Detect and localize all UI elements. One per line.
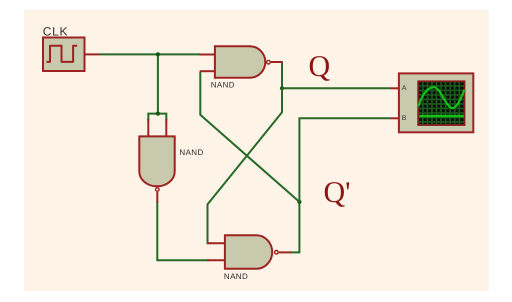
U2 input pin B: [165, 119, 167, 137]
scope trace channel B flat line: [419, 115, 464, 117]
U3 input pin A: [208, 242, 226, 244]
scope graticule: [419, 82, 464, 125]
junction node Q': [297, 200, 301, 204]
scope pin B: [390, 117, 400, 119]
clock generator CLK: [43, 25, 100, 72]
svg-text:Q': Q': [324, 176, 351, 209]
U3 inversion bubble: [275, 251, 279, 255]
scope screen: [418, 81, 464, 125]
svg-text:NAND: NAND: [179, 148, 203, 157]
wire U1 input B diagonal down to node Q': [200, 72, 299, 202]
U2 output pin: [156, 192, 158, 203]
U2 input pin A: [147, 119, 149, 137]
U1 input pin A: [200, 54, 215, 56]
junction U2 tied inputs: [156, 112, 160, 116]
junction node Q: [280, 86, 284, 90]
U3 input pin B: [208, 259, 226, 261]
svg-text:Q: Q: [309, 50, 331, 83]
NAND gate U2: [139, 119, 203, 203]
CLK body: [43, 38, 85, 72]
wire node Q' to scope channel B: [299, 118, 390, 202]
svg-text:NAND: NAND: [211, 80, 235, 89]
svg-text:NAND: NAND: [224, 272, 248, 281]
svg-text:B: B: [402, 115, 407, 122]
square-wave symbol: [47, 46, 78, 62]
svg-text:A: A: [402, 85, 407, 92]
U1 output pin: [271, 61, 283, 63]
wire U3 output up to node Q': [291, 202, 300, 253]
U1 body: [215, 46, 265, 78]
wire U1 output to scope channel A (node Q): [282, 63, 390, 88]
wire U2 input tie bar: [148, 114, 166, 121]
wire node Q diagonal down to U3 input A: [208, 88, 283, 243]
NAND gate U3: [208, 235, 292, 280]
NAND gate U1: [200, 46, 283, 89]
junction on CLK line: [156, 52, 160, 56]
wire CLK output to U1 input A: [100, 53, 201, 55]
U3 body: [225, 235, 272, 268]
U1 inversion bubble: [267, 60, 271, 64]
scope pin A: [390, 87, 400, 89]
svg-text:CLK: CLK: [43, 25, 68, 39]
U3 output pin: [279, 251, 291, 253]
U2 body: [139, 136, 174, 186]
oscilloscope: [390, 73, 473, 132]
scope trace channel A sine: [419, 87, 464, 108]
wire CLK junction down to U2 inputs: [157, 54, 159, 113]
U2 inversion bubble: [156, 188, 160, 192]
wire U2 output to U3 input B: [157, 201, 209, 260]
U1 input pin B: [200, 70, 215, 72]
scope body: [399, 73, 473, 132]
CLK output pin: [85, 53, 100, 55]
